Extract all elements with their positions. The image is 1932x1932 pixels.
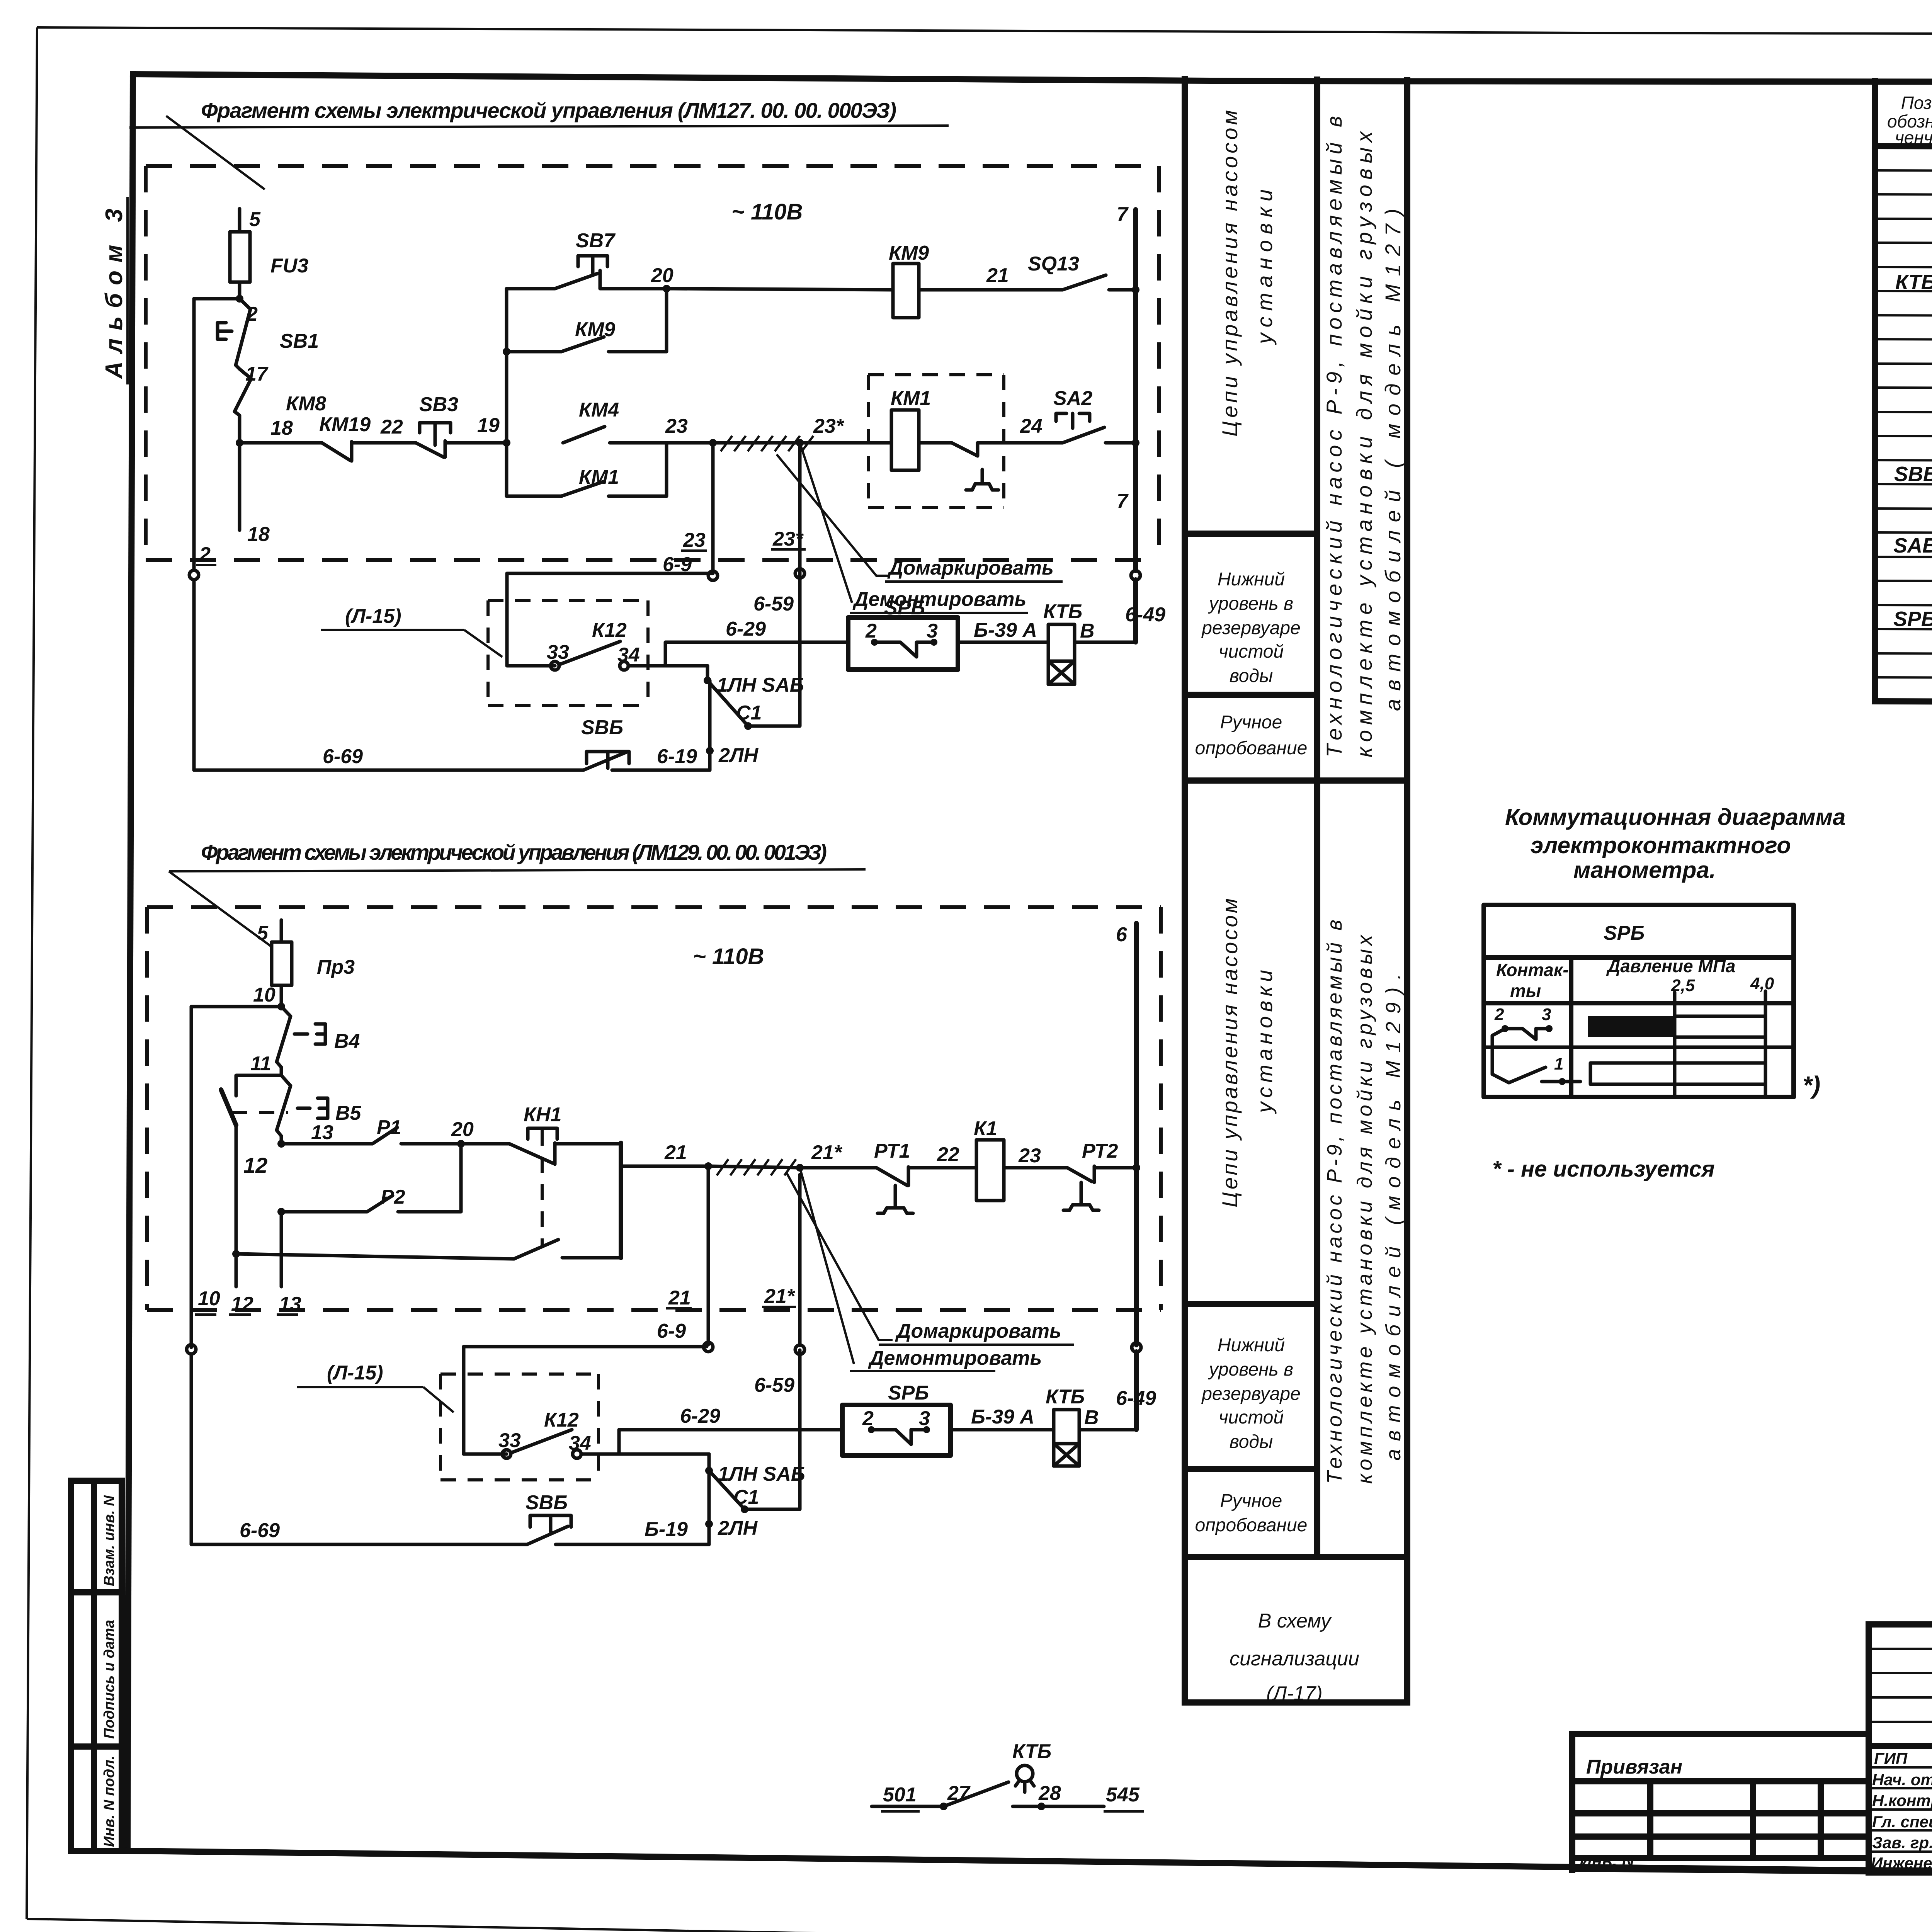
svg-text:21: 21 — [986, 264, 1009, 287]
wire B-39 A — [951, 1428, 1054, 1432]
svg-text:КТБ: КТБ — [1895, 270, 1932, 294]
svg-text:Фрагмент схемы электрическо: Фрагмент схемы электрической управления … — [201, 98, 896, 122]
svg-text:7: 7 — [1117, 203, 1129, 226]
svg-text:22: 22 — [380, 416, 403, 438]
svg-text:Ручное: Ручное — [1220, 712, 1282, 733]
svg-text:3: 3 — [1542, 1005, 1551, 1024]
svg-text:6-19: 6-19 — [657, 745, 697, 768]
svg-text:10: 10 — [253, 984, 276, 1006]
1LN SAB branch — [706, 666, 709, 680]
switch SQ13 — [1063, 275, 1106, 290]
svg-text:1ЛН SАБ: 1ЛН SАБ — [717, 674, 804, 696]
svg-text:Б-19: Б-19 — [645, 1518, 688, 1541]
contact row2 symbol — [1559, 1078, 1566, 1085]
T up to 6-29 — [619, 1430, 842, 1454]
svg-text:воды: воды — [1230, 666, 1273, 686]
svg-text:(Л-15): (Л-15) — [345, 605, 401, 628]
left column wire 10 down — [190, 1007, 193, 1347]
SB7 row — [507, 287, 555, 291]
svg-text:КМ9: КМ9 — [889, 242, 929, 264]
svg-text:опробование: опробование — [1195, 738, 1308, 759]
svg-text:Технологический насос Р-9, пос: Технологический насос Р-9, поставляемый … — [1323, 920, 1346, 1484]
svg-text:комплекте установки для мойки: комплекте установки для мойки грузовых — [1352, 131, 1376, 757]
parts list table — [1875, 81, 1932, 704]
KTB 2 — [1054, 1410, 1079, 1444]
wire node2 to left column — [194, 297, 240, 301]
svg-text:18: 18 — [247, 523, 270, 546]
svg-text:Р1: Р1 — [377, 1116, 401, 1139]
node 13 — [277, 1140, 285, 1148]
svg-text:Технологический насос Р-9, пос: Технологический насос Р-9, поставляемый … — [1322, 116, 1346, 757]
svg-text:6-49: 6-49 — [1125, 604, 1165, 626]
svg-text:Р2: Р2 — [381, 1186, 405, 1208]
svg-text:13: 13 — [279, 1293, 301, 1315]
lower NO contact blade — [514, 1240, 558, 1259]
svg-text:автомобилей (модель М129).: автомобилей (модель М129). — [1382, 974, 1405, 1461]
svg-text:34: 34 — [569, 1432, 591, 1454]
svg-text:С1: С1 — [736, 702, 762, 724]
svg-text:23: 23 — [665, 415, 688, 437]
6-69 rail 2 — [191, 1543, 527, 1546]
svg-text:В: В — [1080, 620, 1095, 642]
6-69 bottom rail — [194, 769, 583, 772]
wire node20 to coil KM9 — [673, 289, 893, 290]
svg-text:Контак-: Контак- — [1496, 960, 1569, 980]
svg-text:Демонтировать: Демонтировать — [868, 1347, 1042, 1369]
K12 contact 2 — [464, 1452, 507, 1456]
L-15 dashed box 2 — [440, 1374, 599, 1480]
contact KM19 — [322, 443, 350, 461]
table — [1484, 905, 1794, 1097]
T up to 6-29 — [665, 642, 848, 666]
svg-text:3: 3 — [919, 1407, 930, 1430]
svg-text:6-9: 6-9 — [657, 1320, 686, 1342]
parts table header text — [1887, 93, 1932, 148]
sheet outer thin border — [37, 27, 1932, 35]
svg-text:КТБ: КТБ — [1012, 1740, 1051, 1763]
svg-text:SВ3: SВ3 — [419, 393, 458, 416]
KM1 dashed box — [868, 375, 1004, 508]
node 23 — [709, 439, 717, 447]
svg-text:КМ9: КМ9 — [575, 318, 615, 341]
middle table rotated texts fragment1 — [1218, 110, 1405, 757]
svg-text:11: 11 — [250, 1053, 271, 1075]
svg-text:SQ13: SQ13 — [1028, 253, 1079, 275]
svg-text:23*: 23* — [813, 415, 845, 437]
svg-text:Демонтировать: Демонтировать — [852, 588, 1026, 611]
svg-text:6-69: 6-69 — [323, 745, 363, 768]
coil K1 — [976, 1140, 1004, 1201]
svg-text:6-59: 6-59 — [754, 1374, 794, 1396]
svg-text:Домаркировать: Домаркировать — [887, 557, 1054, 579]
stub below 18 — [238, 443, 241, 530]
svg-text:Инженер: Инженер — [1871, 1854, 1932, 1872]
fuse FU3 — [230, 232, 250, 282]
KN1 right vertical loop — [619, 1143, 623, 1258]
svg-text:(Л-17): (Л-17) — [1266, 1682, 1322, 1705]
svg-text:28: 28 — [1038, 1782, 1061, 1804]
KTB element — [1048, 624, 1075, 661]
svg-text:Цепи управления насосом: Цепи управления насосом — [1218, 898, 1242, 1207]
svg-text:воды: воды — [1230, 1432, 1273, 1452]
svg-text:18: 18 — [270, 417, 293, 439]
P2 row — [277, 1208, 285, 1216]
svg-text:(Л-15): (Л-15) — [327, 1362, 383, 1384]
svg-text:SВБ: SВБ — [581, 716, 623, 739]
svg-text:2: 2 — [1494, 1005, 1504, 1024]
contact KM8 — [235, 365, 251, 443]
contact B5 — [277, 1075, 291, 1130]
svg-text:21*: 21* — [811, 1141, 843, 1164]
leader lines to annotation — [777, 454, 889, 576]
svg-text:К12: К12 — [544, 1409, 579, 1431]
svg-text:С1: С1 — [733, 1486, 759, 1509]
fragment 1 enclosure dashed box — [146, 164, 1159, 168]
svg-text:Взам. инв. N: Взам. инв. N — [101, 1495, 117, 1586]
right bus 7 — [1133, 209, 1138, 571]
svg-text:уровень в: уровень в — [1208, 1359, 1293, 1380]
exit rail 21 — [621, 1165, 708, 1168]
svg-text:Нижний: Нижний — [1218, 569, 1285, 590]
mechanical dashed link 12-B5 — [232, 1111, 288, 1114]
svg-text:33: 33 — [547, 641, 569, 663]
hatched wire 23 to 23* — [713, 441, 800, 445]
svg-text:6-69: 6-69 — [240, 1519, 280, 1542]
stubs below — [235, 1254, 238, 1287]
latch symbol — [966, 484, 998, 490]
svg-text:20: 20 — [651, 264, 673, 287]
rail 18 segment — [240, 441, 321, 445]
right bus 6 — [1134, 923, 1139, 1345]
svg-text:Альбом 3: Альбом 3 — [101, 209, 128, 379]
wire B to bus — [1075, 641, 1136, 644]
svg-text:Привязан: Привязан — [1586, 1756, 1682, 1778]
node 2 — [236, 295, 243, 303]
svg-text:В4: В4 — [334, 1030, 360, 1053]
svg-text:Н.контр.: Н.контр. — [1872, 1791, 1932, 1810]
svg-text:501: 501 — [883, 1784, 917, 1806]
svg-text:4,0: 4,0 — [1750, 974, 1774, 993]
KN1 contact — [509, 1144, 553, 1163]
rail to KN1 — [461, 1142, 509, 1146]
svg-text:SРБ: SРБ — [1604, 922, 1645, 944]
svg-text:уровень в: уровень в — [1208, 594, 1293, 614]
parts table body text — [1893, 195, 1932, 656]
svg-text:21: 21 — [664, 1141, 687, 1164]
svg-text:установки: установки — [1252, 970, 1277, 1114]
bar row2 outline — [1590, 1063, 1765, 1084]
svg-text:13: 13 — [311, 1121, 333, 1144]
svg-text:5: 5 — [257, 922, 269, 944]
svg-text:34: 34 — [617, 644, 640, 666]
svg-text:РТ2: РТ2 — [1082, 1140, 1118, 1162]
svg-text:комплекте установки для мойки: комплекте установки для мойки грузовых — [1353, 934, 1376, 1484]
gridlines 2.5 / 4.0 — [1673, 992, 1677, 1097]
svg-text:~ 110В: ~ 110В — [693, 944, 764, 969]
svg-text:резервуаре: резервуаре — [1201, 1384, 1301, 1404]
svg-text:SРБ: SРБ — [888, 1382, 929, 1404]
svg-text:Ручное: Ручное — [1220, 1491, 1282, 1511]
svg-text:2: 2 — [865, 620, 877, 642]
svg-text:3: 3 — [927, 620, 938, 642]
svg-text:резервуаре: резервуаре — [1201, 618, 1301, 638]
svg-text:РТ1: РТ1 — [874, 1140, 910, 1162]
L-15 dashed box — [488, 600, 648, 706]
svg-text:12: 12 — [231, 1293, 253, 1315]
fragment 2 enclosure dashed box — [147, 905, 1161, 909]
svg-text:КМ1: КМ1 — [891, 387, 931, 410]
label rows — [1869, 1743, 1932, 1749]
svg-text:сигнализации: сигнализации — [1230, 1648, 1359, 1670]
pushbutton SB3 — [416, 443, 444, 457]
svg-text:SВБ: SВБ — [526, 1492, 568, 1514]
svg-text:SВБ: SВБ — [1894, 463, 1932, 486]
wire left column down — [192, 299, 196, 570]
wire feed top — [238, 209, 241, 232]
svg-text:~ 110В: ~ 110В — [731, 199, 803, 224]
svg-text:Зав. гр.: Зав. гр. — [1872, 1833, 1932, 1852]
svg-text:Гл. спец.: Гл. спец. — [1872, 1813, 1932, 1831]
thin rows upper left — [1869, 1648, 1932, 1650]
svg-text:КМ4: КМ4 — [579, 399, 619, 421]
svg-text:Инв. N: Инв. N — [1580, 1851, 1634, 1870]
svg-text:Фрагмент схемы электрической: Фрагмент схемы электрической управления … — [201, 840, 827, 864]
svg-text:чистой: чистой — [1219, 1407, 1284, 1428]
svg-text:* - не используется: * - не используется — [1492, 1156, 1715, 1182]
svg-text:К1: К1 — [974, 1117, 997, 1140]
RT2 contact — [1067, 1168, 1092, 1182]
svg-text:КТБ: КТБ — [1046, 1386, 1085, 1408]
node 10 — [277, 1003, 285, 1010]
terminal circle 2 — [189, 570, 199, 580]
branch 11 left — [236, 1075, 281, 1096]
svg-text:6-29: 6-29 — [680, 1405, 720, 1427]
svg-text:Б-39 А: Б-39 А — [971, 1406, 1034, 1428]
knife contact 12 — [221, 1090, 236, 1125]
svg-text:SАБ: SАБ — [1893, 534, 1932, 557]
svg-text:чистой: чистой — [1219, 641, 1284, 662]
svg-text:2: 2 — [199, 543, 211, 566]
svg-text:ты: ты — [1510, 981, 1541, 1001]
svg-text:Домаркировать: Домаркировать — [895, 1320, 1061, 1342]
svg-text:В5: В5 — [335, 1102, 362, 1124]
svg-text:SРБ: SРБ — [1893, 607, 1932, 631]
middle vertical table grid — [1185, 79, 1407, 1702]
fuse Pr3 — [272, 942, 292, 985]
svg-text:FU3: FU3 — [270, 255, 308, 277]
wire B-39 A — [958, 641, 1048, 644]
svg-text:КН1: КН1 — [524, 1104, 561, 1126]
svg-text:21*: 21* — [764, 1285, 796, 1308]
node 21 vertical — [704, 1162, 712, 1170]
svg-text:6-29: 6-29 — [726, 618, 766, 640]
svg-text:7: 7 — [1117, 490, 1129, 512]
svg-text:2ЛН: 2ЛН — [718, 744, 759, 767]
coil KM9 — [893, 264, 919, 318]
lower rail from 12 — [232, 1250, 240, 1258]
svg-text:12: 12 — [243, 1153, 267, 1177]
svg-text:21: 21 — [668, 1287, 691, 1309]
1LN SAB — [707, 1454, 711, 1471]
wire with latch step — [919, 443, 1063, 456]
svg-text:Цепи управления насосом: Цепи управления насосом — [1218, 110, 1242, 437]
svg-text:10: 10 — [198, 1287, 220, 1310]
K12 contact inside — [507, 664, 555, 668]
svg-text:*): *) — [1803, 1071, 1820, 1099]
KM9 contact row — [507, 350, 561, 354]
fragment 2 title leader — [169, 871, 270, 946]
svg-text:Б-39 А: Б-39 А — [974, 619, 1037, 641]
svg-text:К12: К12 — [592, 619, 627, 641]
svg-text:23: 23 — [683, 529, 706, 551]
svg-text:Давление МПа: Давление МПа — [1606, 956, 1735, 976]
svg-text:КМ8: КМ8 — [286, 393, 326, 415]
vertical to 1LN — [708, 680, 712, 770]
SPB box 2 — [842, 1405, 951, 1456]
svg-text:Коммутационная диаграмма: Коммутационная диаграмма — [1505, 804, 1845, 830]
KN1 dashed link — [541, 1130, 544, 1246]
middle table rotated texts fragment2 — [1218, 898, 1405, 1484]
wire node10 to left column — [191, 1005, 281, 1009]
wire 21 — [919, 288, 1063, 292]
svg-text:Инв. N подл.: Инв. N подл. — [101, 1756, 117, 1847]
svg-text:20: 20 — [451, 1118, 474, 1141]
svg-text:ченче: ченче — [1895, 128, 1932, 148]
svg-text:2ЛН: 2ЛН — [718, 1517, 758, 1539]
svg-text:2: 2 — [862, 1407, 874, 1430]
svg-text:545: 545 — [1106, 1784, 1140, 1806]
svg-text:23: 23 — [1018, 1145, 1041, 1167]
km bus vertical — [505, 289, 509, 496]
bar row1: filled + outline — [1588, 1016, 1676, 1037]
svg-text:В схему: В схему — [1258, 1610, 1332, 1632]
wire 19 — [445, 441, 507, 445]
KM1 contact row — [507, 495, 561, 498]
svg-text:SА2: SА2 — [1053, 387, 1092, 410]
svg-text:6: 6 — [1116, 923, 1128, 946]
svg-text:КМ19: КМ19 — [319, 413, 371, 436]
hatch 21-21* — [708, 1166, 800, 1168]
node 18 rail start — [236, 439, 243, 447]
wire 28 to 545 — [1013, 1805, 1104, 1808]
svg-text:Поз.: Поз. — [1901, 93, 1932, 113]
fragment 1 title leader — [166, 116, 265, 189]
drawing frame thick border — [133, 74, 1932, 82]
svg-text:1: 1 — [1554, 1054, 1563, 1073]
boundary label underlines — [195, 549, 1144, 1811]
svg-text:1ЛН SАБ: 1ЛН SАБ — [718, 1463, 805, 1485]
wire 22 — [352, 441, 416, 445]
SPB box — [848, 617, 958, 670]
svg-text:электроконтактного: электроконтактного — [1531, 832, 1791, 858]
vertical 21 down to 6-9 — [707, 1168, 710, 1345]
vertical 23 down — [711, 443, 715, 571]
contact B4 — [277, 1007, 291, 1062]
switch SB1 — [236, 299, 250, 365]
svg-text:SВ7: SВ7 — [576, 230, 616, 252]
svg-text:установки: установки — [1252, 189, 1277, 345]
svg-text:22: 22 — [937, 1143, 959, 1166]
svg-text:33: 33 — [498, 1429, 521, 1452]
svg-text:Подпись и дата: Подпись и дата — [101, 1620, 117, 1739]
svg-text:манометра.: манометра. — [1573, 857, 1716, 883]
contact row1 symbol — [1502, 1025, 1509, 1032]
svg-text:опробование: опробование — [1195, 1515, 1308, 1536]
svg-text:ГИП: ГИП — [1874, 1749, 1908, 1767]
rail P1 — [281, 1142, 372, 1146]
svg-text:6-59: 6-59 — [753, 593, 794, 615]
svg-text:В: В — [1084, 1406, 1099, 1429]
svg-text:Нижний: Нижний — [1218, 1335, 1285, 1355]
svg-text:SРБ: SРБ — [884, 597, 925, 619]
coil KM1 — [891, 410, 919, 470]
svg-text:КМ1: КМ1 — [579, 466, 619, 488]
switch SA2 — [1063, 427, 1104, 443]
wire 23* to KM1 box — [800, 441, 891, 445]
svg-text:КТБ: КТБ — [1043, 600, 1082, 623]
RT1 contact — [800, 1166, 876, 1170]
KM4 contact on rail — [563, 427, 605, 443]
svg-text:19: 19 — [477, 414, 500, 437]
svg-text:Пр3: Пр3 — [317, 956, 355, 978]
svg-text:автомобилей ( модель М127): автомобилей ( модель М127) — [1381, 209, 1405, 711]
leader lines to annotation — [787, 1173, 893, 1340]
svg-text:Нач. отд.: Нач. отд. — [1872, 1770, 1932, 1789]
svg-text:SВ1: SВ1 — [280, 330, 319, 352]
svg-text:24: 24 — [1020, 415, 1043, 437]
feed wire top — [280, 920, 283, 942]
svg-text:5: 5 — [249, 208, 261, 231]
